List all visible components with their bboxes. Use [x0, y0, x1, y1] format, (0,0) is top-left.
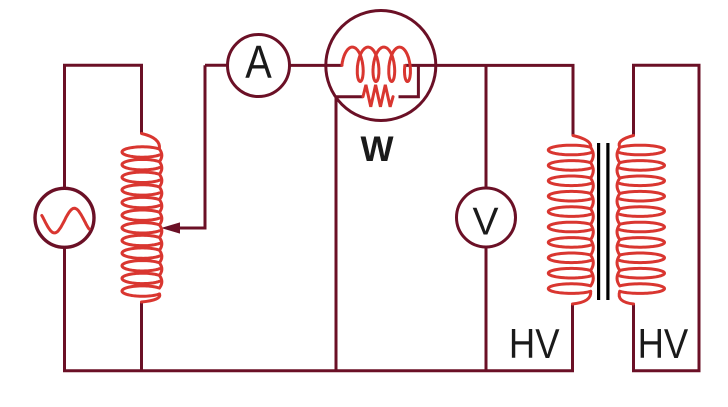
svg-text:HV: HV [638, 320, 689, 367]
svg-text:W: W [360, 130, 393, 169]
svg-text:V: V [473, 201, 499, 244]
svg-text:HV: HV [509, 320, 560, 367]
svg-text:A: A [245, 36, 272, 88]
